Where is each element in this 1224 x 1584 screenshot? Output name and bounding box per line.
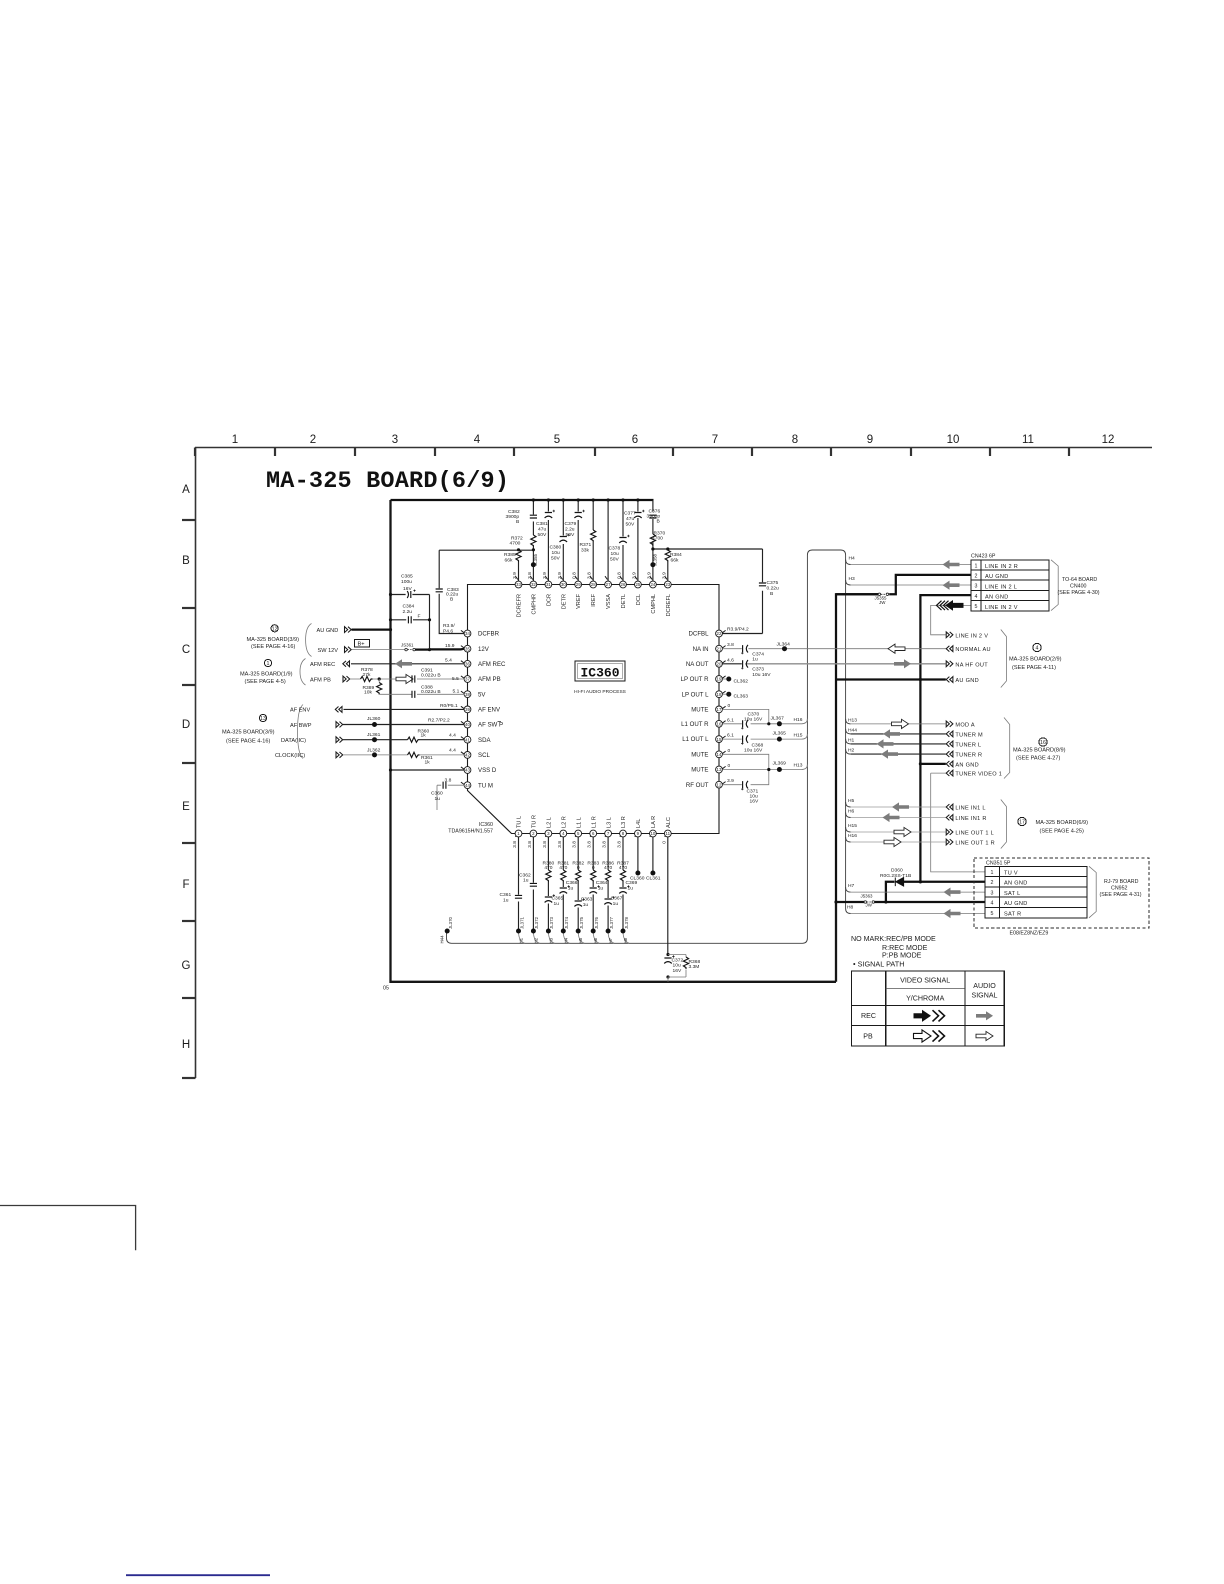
svg-text:29: 29 [576, 582, 581, 587]
svg-text:H3: H3 [849, 576, 856, 582]
svg-text:22: 22 [717, 631, 722, 636]
svg-text:F: F [418, 614, 421, 620]
svg-text:LINE IN1 R: LINE IN1 R [955, 816, 986, 822]
svg-text:B: B [450, 597, 453, 603]
svg-text:16: 16 [1040, 740, 1046, 746]
svg-text:3.8: 3.8 [587, 841, 593, 848]
svg-text:C360: C360 [431, 791, 443, 797]
svg-text:TU L: TU L [517, 816, 523, 828]
svg-text:2: 2 [975, 574, 978, 580]
svg-text:(SEE PAGE 4-31): (SEE PAGE 4-31) [1100, 892, 1142, 898]
svg-text:G: G [182, 960, 191, 972]
svg-text:TUNER M: TUNER M [955, 732, 983, 738]
svg-text:3: 3 [392, 434, 398, 446]
svg-text:LP OUT L: LP OUT L [682, 691, 709, 698]
svg-text:3.8: 3.8 [542, 841, 548, 848]
svg-text:H13: H13 [794, 763, 803, 769]
svg-text:LINE IN 2 R: LINE IN 2 R [985, 564, 1018, 570]
svg-text:JL375: JL375 [579, 916, 584, 929]
svg-text:TUNER L: TUNER L [955, 742, 981, 748]
svg-text:H44: H44 [848, 727, 857, 733]
svg-text:5: 5 [991, 911, 994, 917]
svg-text:TDA9615H/N1.557: TDA9615H/N1.557 [448, 829, 493, 835]
svg-text:4: 4 [975, 594, 978, 600]
svg-text:13: 13 [717, 767, 722, 772]
svg-text:JW: JW [866, 903, 873, 908]
svg-text:H4: H4 [849, 556, 856, 562]
svg-text:VIDEO SIGNAL: VIDEO SIGNAL [900, 977, 950, 985]
svg-text:P:PB MODE: P:PB MODE [882, 951, 922, 959]
svg-text:R3.9/P4.2: R3.9/P4.2 [727, 627, 749, 633]
svg-text:5: 5 [554, 434, 560, 446]
svg-text:8: 8 [792, 434, 798, 446]
svg-text:50V: 50V [551, 556, 560, 562]
svg-text:11: 11 [1022, 434, 1034, 446]
svg-text:C385: C385 [401, 574, 413, 580]
svg-text:TU M: TU M [478, 782, 493, 789]
svg-text:MUTE: MUTE [691, 767, 708, 774]
svg-text:MA-325 BOARD(6/9): MA-325 BOARD(6/9) [266, 468, 509, 495]
svg-text:R3.9/: R3.9/ [443, 623, 455, 629]
svg-text:5V: 5V [478, 691, 486, 698]
svg-text:3.3M: 3.3M [689, 964, 700, 970]
svg-text:SCL: SCL [478, 752, 490, 759]
svg-text:0: 0 [728, 748, 731, 754]
svg-text:17: 17 [1019, 820, 1025, 826]
svg-text:50V: 50V [538, 532, 547, 538]
svg-text:D360: D360 [891, 868, 903, 874]
svg-text:3.9: 3.9 [727, 778, 734, 784]
svg-text:28: 28 [591, 582, 596, 587]
svg-text:1u: 1u [628, 885, 634, 891]
svg-text:C379: C379 [565, 521, 577, 527]
svg-text:C375: C375 [767, 580, 779, 586]
svg-text:H1: H1 [848, 737, 855, 743]
svg-text:H4: H4 [563, 937, 568, 943]
svg-text:IC360: IC360 [479, 822, 493, 828]
svg-text:B+: B+ [358, 642, 365, 648]
svg-text:2.2u: 2.2u [403, 609, 413, 615]
svg-text:10u: 10u [552, 550, 560, 556]
svg-text:CN423 6P: CN423 6P [971, 553, 996, 559]
svg-text:5.5: 5.5 [452, 676, 459, 682]
svg-text:5: 5 [975, 604, 978, 610]
svg-text:JL364: JL364 [777, 642, 791, 648]
svg-text:L2 L: L2 L [547, 817, 553, 828]
svg-text:MUTE: MUTE [691, 707, 708, 714]
svg-text:H3: H3 [548, 937, 553, 943]
svg-text:DCREFL: DCREFL [666, 594, 672, 616]
svg-text:AF SW P: AF SW P [478, 722, 503, 729]
svg-text:12: 12 [272, 626, 278, 632]
svg-text:SIGNAL: SIGNAL [971, 992, 997, 1000]
svg-text:37: 37 [465, 677, 470, 682]
svg-text:H7: H7 [608, 937, 613, 943]
svg-text:10u: 10u [673, 963, 681, 969]
svg-text:2.2u: 2.2u [565, 527, 575, 533]
svg-text:3.8: 3.8 [445, 778, 452, 784]
svg-text:C373: C373 [752, 667, 764, 673]
svg-text:C365: C365 [552, 896, 564, 902]
svg-text:H5: H5 [578, 937, 583, 943]
svg-text:3.8: 3.8 [602, 841, 608, 848]
svg-text:SDA: SDA [478, 737, 491, 744]
svg-text:CN952: CN952 [1111, 886, 1128, 892]
svg-text:41: 41 [465, 737, 470, 742]
svg-text:H8: H8 [623, 937, 628, 943]
svg-text:66k: 66k [505, 558, 513, 564]
svg-text:JL369: JL369 [773, 761, 787, 767]
svg-text:33k: 33k [581, 548, 589, 554]
svg-text:LINE IN 2 L: LINE IN 2 L [985, 584, 1017, 590]
svg-text:H7: H7 [848, 883, 855, 889]
svg-text:1u: 1u [523, 878, 529, 884]
svg-text:1: 1 [975, 563, 978, 569]
svg-text:5.1: 5.1 [453, 688, 460, 694]
svg-text:9: 9 [867, 434, 873, 446]
svg-text:470: 470 [604, 865, 612, 871]
svg-text:15.9: 15.9 [445, 643, 455, 649]
svg-text:H8: H8 [847, 905, 854, 911]
svg-text:DCL: DCL [636, 594, 642, 605]
svg-text:10u: 10u [611, 551, 619, 557]
svg-text:VSSA: VSSA [606, 594, 612, 609]
svg-text:4.6: 4.6 [727, 657, 734, 663]
svg-text:36: 36 [465, 662, 470, 667]
svg-text:35: 35 [465, 646, 470, 651]
svg-text:E: E [182, 801, 190, 813]
svg-text:LINE OUT 1 R: LINE OUT 1 R [955, 841, 995, 847]
svg-text:TU R: TU R [532, 815, 538, 828]
svg-text:40: 40 [465, 722, 470, 727]
svg-text:C377: C377 [624, 511, 636, 517]
svg-text:C380: C380 [550, 545, 562, 551]
svg-text:(SEE PAGE 4-11): (SEE PAGE 4-11) [1012, 665, 1056, 671]
svg-text:4: 4 [1036, 646, 1039, 652]
svg-text:1k: 1k [421, 733, 427, 739]
svg-text:R371: R371 [580, 542, 592, 548]
svg-text:4: 4 [474, 434, 481, 446]
svg-text:IC360: IC360 [580, 666, 619, 681]
svg-text:4.4: 4.4 [449, 748, 456, 754]
svg-text:3.8: 3.8 [557, 841, 563, 848]
svg-text:AN GND: AN GND [985, 595, 1009, 601]
svg-text:CL363: CL363 [734, 694, 749, 700]
svg-text:4.4: 4.4 [449, 732, 456, 738]
svg-text:P4.6: P4.6 [443, 629, 453, 635]
svg-text:6: 6 [632, 434, 638, 446]
svg-text:10k: 10k [364, 690, 372, 696]
svg-text:1u: 1u [554, 901, 560, 907]
svg-text:0.22u: 0.22u [767, 586, 780, 592]
svg-text:5.4: 5.4 [445, 658, 452, 664]
svg-text:470: 470 [559, 865, 567, 871]
svg-text:CN400: CN400 [1070, 584, 1087, 590]
svg-text:(SEE PAGE 4-25): (SEE PAGE 4-25) [1040, 829, 1084, 835]
svg-text:1u: 1u [435, 796, 441, 802]
svg-text:L3 R: L3 R [621, 816, 627, 828]
svg-text:AUDIO: AUDIO [973, 982, 996, 990]
svg-text:1u: 1u [598, 885, 604, 891]
svg-text:470: 470 [619, 865, 627, 871]
svg-text:(SEE PAGE 4-30): (SEE PAGE 4-30) [1058, 590, 1100, 596]
svg-text:(SEE PAGE 4-16): (SEE PAGE 4-16) [251, 644, 295, 650]
svg-text:27: 27 [606, 582, 611, 587]
svg-text:LINE IN1 L: LINE IN1 L [955, 806, 985, 812]
svg-text:L3 L: L3 L [606, 817, 612, 828]
svg-text:VREF: VREF [576, 593, 582, 609]
svg-text:16V: 16V [750, 799, 759, 805]
svg-text:B: B [770, 591, 773, 597]
svg-text:66k: 66k [671, 558, 679, 564]
svg-text:L1 OUT L: L1 OUT L [682, 736, 709, 743]
svg-text:23: 23 [665, 582, 670, 587]
svg-text:34: 34 [465, 631, 470, 636]
svg-text:H15: H15 [794, 733, 803, 739]
svg-text:AFM REC: AFM REC [310, 662, 335, 668]
svg-text:1u: 1u [752, 656, 758, 662]
svg-text:H16: H16 [794, 717, 803, 723]
svg-text:CL360: CL360 [630, 876, 645, 882]
svg-text:JL374: JL374 [564, 916, 569, 929]
svg-text:AFM PB: AFM PB [310, 677, 331, 683]
svg-text:2: 2 [991, 880, 994, 886]
svg-text:0: 0 [661, 841, 667, 844]
svg-text:Y/CHROMA: Y/CHROMA [906, 995, 944, 1003]
svg-text:RJ-79 BOARD: RJ-79 BOARD [1104, 879, 1139, 885]
svg-text:A: A [182, 484, 190, 496]
svg-text:1u: 1u [568, 885, 574, 891]
svg-text:42: 42 [465, 753, 470, 758]
svg-text:R0/P5.1: R0/P5.1 [440, 703, 458, 709]
svg-text:H15: H15 [848, 823, 857, 829]
svg-text:AN GND: AN GND [955, 762, 979, 768]
svg-text:11: 11 [666, 831, 671, 836]
svg-text:0: 0 [577, 865, 580, 871]
svg-text:NA HF OUT: NA HF OUT [955, 662, 988, 668]
svg-text:16: 16 [717, 722, 722, 727]
svg-text:SAT L: SAT L [1004, 891, 1021, 897]
svg-text:C368: C368 [752, 742, 764, 748]
svg-text:(SEE PAGE 4-27): (SEE PAGE 4-27) [1016, 756, 1060, 762]
svg-text:C372: C372 [672, 958, 684, 964]
svg-text:100u: 100u [401, 579, 412, 585]
svg-text:SAT R: SAT R [1004, 912, 1021, 918]
svg-text:DCFBL: DCFBL [689, 631, 710, 638]
svg-text:3.8: 3.8 [572, 841, 578, 848]
svg-text:JL377: JL377 [609, 916, 614, 929]
svg-text:C384: C384 [403, 604, 415, 610]
svg-text:JL358: JL358 [652, 553, 657, 566]
svg-text:3.8: 3.8 [617, 841, 623, 848]
svg-text:31: 31 [546, 582, 551, 587]
svg-text:LA R: LA R [651, 816, 657, 828]
svg-text:D: D [182, 719, 190, 731]
svg-text:NA IN: NA IN [693, 646, 709, 653]
svg-text:C361: C361 [500, 892, 512, 898]
svg-text:10u 16V: 10u 16V [744, 717, 763, 723]
svg-text:CMPHL: CMPHL [651, 594, 657, 614]
svg-text:4700: 4700 [510, 541, 521, 547]
svg-text:ALC: ALC [666, 817, 672, 828]
svg-text:AU GND: AU GND [955, 678, 979, 684]
svg-text:3.8: 3.8 [512, 841, 518, 848]
svg-text:CL362: CL362 [734, 678, 749, 684]
svg-text:CLOCK(IIC): CLOCK(IIC) [275, 753, 305, 759]
svg-text:NO MARK:REC/PB MODE: NO MARK:REC/PB MODE [851, 935, 936, 943]
svg-text:AF BWP: AF BWP [290, 723, 312, 729]
svg-text:H13: H13 [848, 717, 857, 723]
svg-text:IREF: IREF [591, 593, 597, 606]
svg-text:JL371: JL371 [519, 916, 524, 929]
svg-text:12: 12 [1102, 434, 1115, 446]
svg-text:R385: R385 [504, 552, 516, 558]
svg-text:3: 3 [991, 890, 994, 896]
svg-text:JL370: JL370 [448, 916, 453, 929]
svg-text:C378: C378 [609, 546, 621, 552]
svg-text:1u: 1u [613, 901, 619, 907]
svg-text:AF ENV: AF ENV [290, 708, 310, 714]
svg-text:DETR: DETR [561, 594, 567, 609]
svg-text:AFM PB: AFM PB [478, 676, 501, 683]
svg-text:DATA(IIC): DATA(IIC) [281, 738, 306, 744]
svg-text:J5363: J5363 [861, 894, 874, 899]
svg-text:4700: 4700 [652, 536, 663, 542]
svg-text:1k: 1k [425, 760, 431, 766]
svg-text:H1: H1 [519, 937, 524, 943]
svg-text:LINE IN 2 V: LINE IN 2 V [985, 605, 1018, 611]
svg-text:HI-FI AUDIO PROCESS: HI-FI AUDIO PROCESS [574, 689, 626, 695]
svg-text:H6: H6 [593, 937, 598, 943]
svg-text:C362: C362 [519, 873, 531, 879]
svg-text:C364: C364 [596, 880, 608, 886]
svg-text:21: 21 [717, 646, 722, 651]
svg-text:LP OUT R: LP OUT R [681, 676, 709, 683]
svg-text:H16: H16 [848, 833, 857, 839]
svg-text:JS361: JS361 [401, 642, 414, 647]
svg-text:12: 12 [717, 782, 722, 787]
svg-text:PB: PB [863, 1033, 873, 1041]
svg-text:DCREFR: DCREFR [517, 594, 523, 617]
svg-text:44: 44 [465, 783, 470, 788]
svg-text:F: F [182, 879, 189, 891]
svg-text:JW: JW [879, 600, 886, 605]
svg-text:50V: 50V [626, 522, 635, 528]
svg-text:16V: 16V [403, 586, 412, 592]
svg-text:7: 7 [712, 434, 718, 446]
svg-text:R368: R368 [689, 959, 701, 965]
svg-text:0: 0 [728, 763, 731, 769]
svg-text:JL372: JL372 [534, 916, 539, 929]
svg-text:NORMAL AU: NORMAL AU [955, 647, 990, 653]
svg-text:JL355: JL355 [533, 553, 538, 566]
svg-text:H: H [182, 1039, 190, 1051]
svg-text:MA-325 BOARD(2/9): MA-325 BOARD(2/9) [1009, 657, 1062, 663]
svg-text:AU GND: AU GND [1004, 901, 1028, 907]
svg-text:LINE OUT 1 L: LINE OUT 1 L [955, 831, 994, 837]
svg-text:RF OUT: RF OUT [686, 782, 709, 789]
svg-text:0.022u B: 0.022u B [421, 672, 441, 678]
svg-text:L1 R: L1 R [591, 816, 597, 828]
svg-text:R384: R384 [670, 552, 682, 558]
svg-text:10u: 10u [750, 794, 758, 800]
svg-text:18: 18 [717, 692, 722, 697]
svg-text:MA-325 BOARD(3/9): MA-325 BOARD(3/9) [247, 637, 300, 643]
svg-text:MA-325 BOARD(8/9): MA-325 BOARD(8/9) [1013, 747, 1066, 753]
svg-text:38: 38 [465, 692, 470, 697]
svg-text:50V: 50V [610, 557, 619, 563]
svg-text:47u: 47u [626, 516, 634, 522]
svg-text:19: 19 [717, 677, 722, 682]
svg-text:TUNER R: TUNER R [955, 753, 982, 759]
svg-text:CMPHR: CMPHR [531, 594, 537, 615]
svg-text:B: B [516, 519, 519, 525]
svg-text:0: 0 [592, 865, 595, 871]
svg-text:C363: C363 [581, 897, 593, 903]
svg-text:JL376: JL376 [594, 916, 599, 929]
svg-text:12V: 12V [478, 646, 490, 653]
svg-text:05: 05 [383, 986, 389, 992]
svg-text:0.022u B: 0.022u B [421, 689, 441, 695]
svg-text:JL367: JL367 [771, 715, 785, 721]
svg-text:JL361: JL361 [367, 732, 381, 738]
svg-text:AU GND: AU GND [317, 628, 339, 634]
svg-text:DCR: DCR [546, 594, 552, 606]
svg-text:39: 39 [465, 707, 470, 712]
svg-text:13: 13 [260, 716, 266, 722]
svg-text:AFM REC: AFM REC [478, 661, 506, 668]
svg-text:25: 25 [635, 582, 640, 587]
svg-text:C: C [182, 644, 190, 656]
svg-text:C367: C367 [611, 896, 623, 902]
svg-text:43: 43 [465, 768, 470, 773]
svg-text:H6: H6 [848, 809, 855, 815]
svg-text:10u 16V: 10u 16V [752, 672, 771, 678]
svg-text:H2: H2 [533, 937, 538, 943]
svg-text:DETL: DETL [621, 594, 627, 608]
svg-text:NA OUT: NA OUT [686, 661, 709, 668]
svg-text:R0G.2SS-T1B: R0G.2SS-T1B [880, 873, 911, 879]
svg-text:MA-325 BOARD(6/9): MA-325 BOARD(6/9) [1036, 820, 1089, 826]
svg-text:3.8: 3.8 [527, 841, 533, 848]
svg-text:MA-325 BOARD(3/9): MA-325 BOARD(3/9) [222, 729, 275, 735]
svg-text:R2.7/P2.2: R2.7/P2.2 [428, 718, 450, 724]
svg-text:47u: 47u [538, 527, 546, 533]
svg-text:CL361: CL361 [646, 876, 661, 882]
svg-text:SW 12V: SW 12V [318, 648, 339, 654]
svg-text:TUNER VIDEO 1: TUNER VIDEO 1 [955, 772, 1002, 778]
svg-text:32: 32 [531, 582, 536, 587]
svg-text:TU V: TU V [1004, 870, 1018, 876]
svg-text:E08/EZ8NZ/EZ9: E08/EZ8NZ/EZ9 [1010, 931, 1049, 937]
svg-text:20: 20 [717, 662, 722, 667]
svg-text:H2: H2 [848, 748, 855, 754]
svg-text:TO-64 BOARD: TO-64 BOARD [1062, 577, 1097, 583]
svg-text:L1 OUT R: L1 OUT R [681, 721, 709, 728]
svg-text:MUTE: MUTE [691, 751, 708, 758]
svg-text:L1 L: L1 L [576, 817, 582, 828]
svg-text:10: 10 [650, 831, 655, 836]
svg-text:VSS D: VSS D [478, 767, 497, 774]
svg-text:L4L: L4L [636, 819, 642, 828]
svg-text:1u: 1u [503, 897, 509, 903]
svg-text:14: 14 [717, 752, 722, 757]
svg-text:1: 1 [991, 870, 994, 876]
svg-text:27k: 27k [363, 672, 371, 678]
svg-text:AF ENV: AF ENV [478, 707, 501, 714]
svg-text:AN GND: AN GND [1004, 881, 1028, 887]
svg-text:17: 17 [717, 707, 722, 712]
